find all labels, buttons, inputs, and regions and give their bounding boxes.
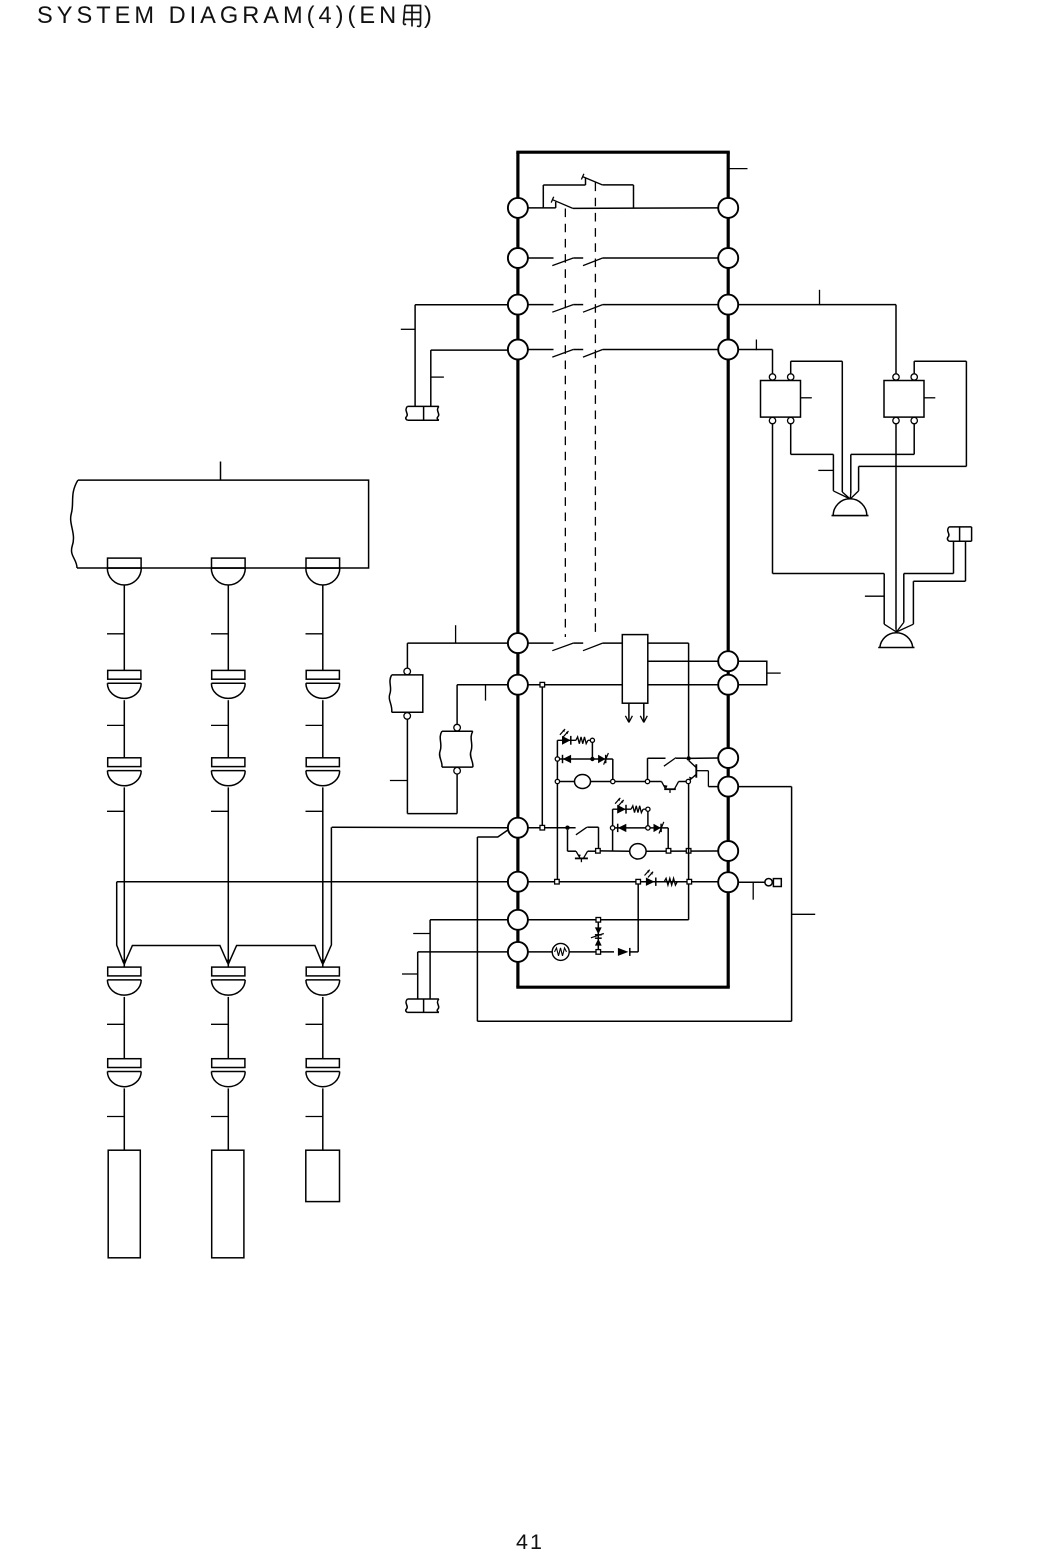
svg-text:SYSTEM DIAGRAM(4)(EN: SYSTEM DIAGRAM(4)(EN (37, 3, 400, 29)
svg-text:41: 41 (516, 1530, 544, 1554)
svg-text:): ) (424, 3, 432, 29)
